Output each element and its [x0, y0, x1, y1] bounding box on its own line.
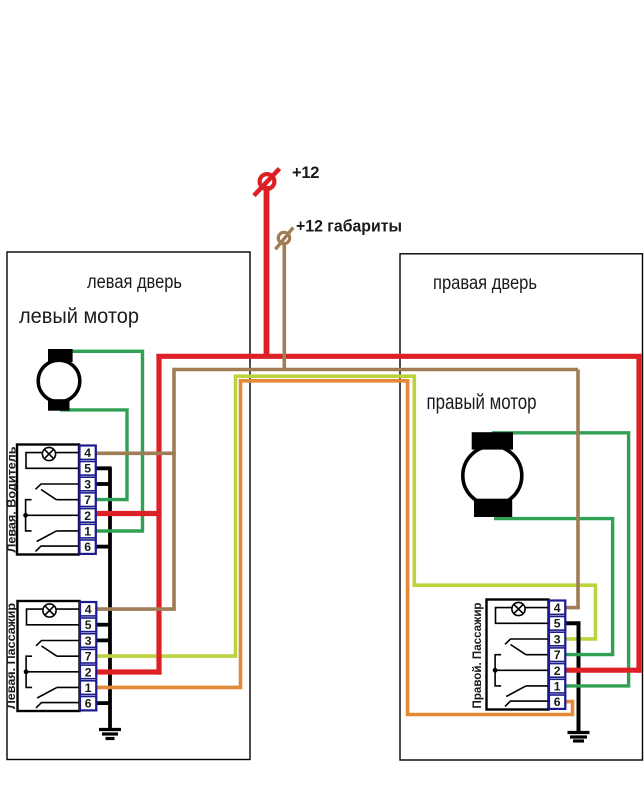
brown knot (+12 габариты tap) [275, 228, 293, 250]
svg-text:левый мотор: левый мотор [19, 304, 139, 328]
right door box [400, 254, 643, 760]
ground symbol right [568, 733, 590, 742]
wire: +12 red feed [95, 186, 642, 675]
svg-text:правая дверь: правая дверь [433, 273, 537, 294]
svg-text:левая дверь: левая дверь [87, 272, 182, 293]
wire: khaki left pin7 to right pin3 [95, 376, 596, 656]
svg-text:правый мотор: правый мотор [427, 390, 537, 414]
wire: +12 габариты brown feed [95, 242, 580, 609]
svg-text:+12: +12 [292, 164, 319, 182]
connector S3: Правой. Пассажир [487, 600, 566, 710]
svg-text:Правой. Пассажир: Правой. Пассажир [470, 603, 484, 709]
wire: green left motor bottom to pin7 [60, 410, 127, 500]
wire: green right motor top to pin1 [492, 433, 629, 686]
svg-text:Левая. Водитель: Левая. Водитель [5, 447, 19, 553]
wire: black pin5 right connector to ground [565, 623, 579, 732]
wire: green right motor bottom to pin7 [494, 519, 613, 655]
left motor M1 [38, 349, 80, 411]
wire: orange left pin1 to right pin6 [95, 381, 573, 715]
wire: black ground bus left [95, 468, 112, 729]
left door box [7, 252, 250, 760]
right motor M2 [463, 432, 522, 517]
svg-text:+12 габариты: +12 габариты [296, 218, 402, 236]
svg-text:Левая. Пассажир: Левая. Пассажир [4, 603, 18, 709]
wire: green left motor top to pin1 [60, 351, 143, 531]
ground symbol left [99, 730, 121, 739]
red knot (+12 tap) [254, 169, 280, 196]
connector S2: Левая. Пассажир [18, 601, 97, 711]
connector S1: Левая. Водитель [17, 445, 96, 555]
